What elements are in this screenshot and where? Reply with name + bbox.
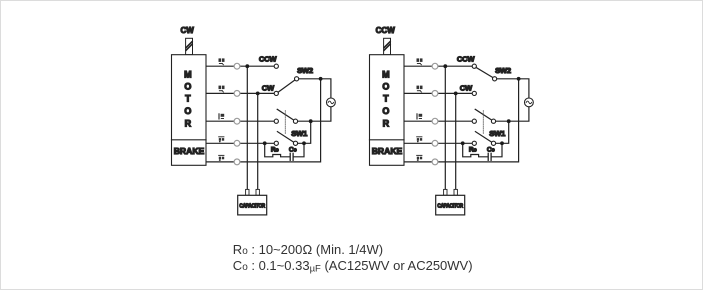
svg-text:O: O [382, 106, 389, 116]
node: left row4/spark-killer right [302, 141, 306, 145]
lead connector row 3 [432, 118, 438, 124]
motor M (left) body [172, 55, 207, 166]
svg-text:Ro: Ro [271, 146, 279, 153]
capacitor unit box [436, 195, 465, 215]
svg-text:CW: CW [460, 84, 473, 93]
brake section divider [370, 139, 405, 141]
svg-text:SW1: SW1 [291, 129, 308, 138]
wire: right spark-killer loop (Ro + Co in series) [463, 143, 488, 157]
lead connector row 5 [432, 159, 438, 165]
switch SW2 blade [278, 80, 295, 92]
wire: left SW2 pole to source branch node [299, 78, 321, 80]
svg-text:CCW: CCW [259, 54, 278, 63]
lead colour label (red 적) [417, 86, 423, 93]
SW1 mechanical link (dashed) [482, 111, 484, 135]
wire: right source top lead [519, 79, 529, 98]
node: right row3/source-return [507, 119, 511, 123]
svg-text:SW1: SW1 [489, 129, 506, 138]
node: right row1/bus A [443, 64, 447, 68]
capacitor unit box [238, 195, 267, 215]
wire: right brake lead 2 (row 5) to source return [404, 79, 519, 162]
brake section divider [172, 139, 207, 141]
lead colour label (black 흑) [416, 113, 422, 119]
wire: left brake lead 1 (row 4) to SW1 lower contact [206, 142, 276, 144]
svg-text:O: O [184, 106, 191, 116]
svg-text:M: M [382, 69, 390, 79]
note line 1: Ro rating [233, 242, 383, 257]
lead colour label (black 흑) [218, 113, 224, 119]
svg-text:O: O [184, 82, 191, 92]
lead connector row 2 [432, 91, 438, 97]
wire: right SW2 pole to source branch node [497, 78, 519, 80]
lead colour label (red 적) [219, 86, 225, 93]
svg-text:CCW: CCW [376, 26, 396, 35]
wire: left source bottom lead to row-3 node [298, 107, 331, 122]
CW terminal [274, 91, 278, 95]
note line 2: Co rating [233, 258, 473, 275]
svg-text:SW2: SW2 [297, 66, 313, 75]
node: left SW2 pole/source [319, 77, 323, 81]
svg-text:CCW: CCW [457, 54, 476, 63]
svg-text:SW2: SW2 [495, 66, 511, 75]
switch SW1 lower contact [274, 141, 278, 145]
wire: right white lead (row 1) motor to CCW terminal [404, 65, 474, 67]
switch SW1 lower blade (open) [277, 132, 293, 143]
switch SW1 upper blade (open) [475, 109, 492, 120]
lead connector row 1 [432, 63, 438, 69]
AC power source [525, 98, 534, 107]
motor shaft (CW rotation) [186, 38, 193, 54]
wire: right SW1 lower pole to row-3 node (vertical link) [496, 121, 509, 143]
svg-text:BRAKE: BRAKE [372, 146, 403, 156]
svg-text:BRAKE: BRAKE [174, 146, 205, 156]
wire: left source top lead [321, 79, 331, 98]
node: left row3/source-return [309, 119, 313, 123]
capacitor unit terminal tabs [444, 189, 447, 195]
CCW terminal [274, 64, 278, 68]
node: left row1/bus A [245, 64, 249, 68]
MOTOR label [184, 69, 192, 128]
lead connector row 1 [234, 63, 240, 69]
switch SW2 blade [476, 68, 493, 78]
svg-text:CAPACITOR: CAPACITOR [437, 203, 463, 209]
wire: left SW1 lower pole to row-3 node (vertical link) [298, 121, 311, 143]
switch SW1 upper pole [491, 119, 495, 123]
switch SW2 pole [493, 77, 497, 81]
svg-text:M: M [184, 69, 192, 79]
node: left row2/bus B [256, 92, 260, 96]
SW1 mechanical link (dashed) [284, 111, 286, 135]
svg-text:Co: Co [289, 146, 297, 153]
switch SW1 lower blade (open) [475, 132, 491, 143]
wire: left red lead (row 2) motor to CW terminal [206, 92, 276, 94]
switch SW1 lower contact [472, 141, 476, 145]
lead colour label (white 백) [219, 58, 225, 65]
wire: left vertical bus from row 1 to capacitor terminal [246, 66, 248, 189]
node: right row4/spark-killer right [500, 141, 504, 145]
svg-text:CW: CW [262, 84, 275, 93]
node: left row4/spark-killer left [263, 141, 267, 145]
wire: right source bottom lead to row-3 node [496, 107, 529, 122]
lead connector row 4 [234, 140, 240, 146]
svg-text:R: R [383, 118, 390, 128]
capacitor Co plates [289, 153, 291, 160]
lead colour label (blue 청) [416, 155, 422, 161]
motor M (right) body [370, 55, 405, 166]
wire: left vertical bus from row 2 to capacitor terminal [257, 93, 259, 189]
lead connector row 5 [234, 159, 240, 165]
capacitor unit terminal tabs [246, 189, 249, 195]
lead colour label (blue 청) [218, 136, 224, 142]
motor shaft (CCW rotation) [384, 38, 391, 54]
lead colour label (blue 청) [416, 136, 422, 142]
switch SW1 upper contact [274, 119, 278, 123]
capacitor Co plates [487, 153, 489, 160]
svg-text:Ro: Ro [469, 146, 477, 153]
AC power source [327, 98, 336, 107]
wire: right brake lead 1 (row 4) to SW1 lower contact [404, 142, 474, 144]
switch SW1 upper pole [293, 119, 297, 123]
switch SW2 pole [295, 77, 299, 81]
lead colour label (blue 청) [218, 155, 224, 161]
svg-text:T: T [185, 94, 191, 104]
switch SW1 upper contact [472, 119, 476, 123]
CCW terminal [472, 64, 476, 68]
switch SW1 upper blade (open) [277, 109, 294, 120]
node: right row4/spark-killer left [461, 141, 465, 145]
wire: left brake lead 2 (row 5) to source return [206, 79, 321, 162]
CW terminal [472, 91, 476, 95]
wire: left white lead (row 1) motor to CCW terminal [206, 65, 276, 67]
node: right SW2 pole/source [517, 77, 521, 81]
svg-text:R: R [185, 118, 192, 128]
svg-text:Co: Co [487, 146, 495, 153]
wire: right vertical bus from row 2 to capacitor terminal [455, 93, 457, 189]
wire: right red lead (row 2) motor to CW terminal [404, 92, 474, 94]
lead connector row 2 [234, 91, 240, 97]
switch SW1 lower pole [491, 141, 495, 145]
svg-text:CW: CW [181, 26, 195, 35]
wire: left black lead (row 3) motor to SW1 upper contact [206, 120, 276, 122]
svg-text:CAPACITOR: CAPACITOR [239, 203, 265, 209]
wire: left spark-killer loop (Ro + Co in series) [265, 143, 290, 157]
lead connector row 4 [432, 140, 438, 146]
switch SW1 lower pole [293, 141, 297, 145]
lead connector row 3 [234, 118, 240, 124]
MOTOR label [382, 69, 390, 128]
svg-text:T: T [383, 94, 389, 104]
wire: right vertical bus from row 1 to capacitor terminal [444, 66, 446, 189]
lead colour label (white 백) [417, 58, 423, 65]
svg-text:O: O [382, 82, 389, 92]
node: right row2/bus B [454, 92, 458, 96]
wire: right black lead (row 3) motor to SW1 upper contact [404, 120, 474, 122]
